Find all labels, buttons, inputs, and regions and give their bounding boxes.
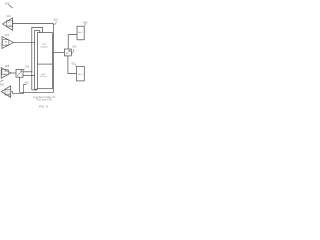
label 912 curl: [75, 65, 76, 67]
svg-text:Ant 1: Ant 1: [78, 31, 84, 34]
wire vertical Vb: [35, 31, 40, 90]
label 900 leader: [9, 5, 13, 9]
switch S1: [64, 49, 71, 56]
svg-text:918: 918: [25, 65, 30, 69]
svg-text:920: 920: [0, 83, 5, 87]
mixer M1: [16, 69, 23, 77]
wire mixer to Va: [23, 71, 32, 73]
wire block to switch: [54, 52, 65, 54]
svg-text:FIG. 9: FIG. 9: [39, 105, 48, 109]
svg-text:Duplexer: Duplexer: [40, 46, 48, 49]
amplifier A3 inner box: [2, 69, 8, 75]
svg-text:922: 922: [25, 81, 30, 85]
label 910 curl: [71, 49, 74, 52]
svg-text:TDD and FDD: TDD and FDD: [36, 98, 53, 102]
label 918 curl: [23, 68, 25, 71]
svg-text:910: 910: [72, 45, 77, 49]
wire mixer bottom vertical: [19, 77, 21, 92]
wire switch up to antenna box: [68, 35, 77, 49]
block divider: [37, 63, 52, 65]
wire Vb to block bottom: [35, 88, 38, 90]
svg-text:904: 904: [5, 33, 10, 37]
amplifier A3: [1, 68, 11, 79]
wire A2 to node: [14, 41, 35, 43]
wire vertical Va: [32, 27, 43, 90]
amplifier A1: [3, 18, 13, 30]
wire right vertical: [53, 24, 55, 93]
svg-text:908: 908: [5, 64, 10, 68]
antenna box B3 bottom right: [77, 67, 85, 81]
label 920 leader: [0, 80, 4, 82]
svg-text:LNA: LNA: [7, 24, 12, 27]
svg-text:914: 914: [6, 14, 11, 18]
wire mixer to Vb: [23, 74, 35, 76]
wire bottom horizontal: [20, 91, 54, 93]
wire A4 loop: [11, 84, 27, 93]
svg-text:900: 900: [5, 2, 10, 6]
junction A2 wire at Vb: [34, 42, 35, 43]
amplifier A4: [1, 86, 10, 98]
label 906 curl: [84, 24, 85, 26]
svg-text:LNA: LNA: [6, 93, 11, 96]
wire A3 to mixer: [11, 72, 16, 74]
svg-text:916: 916: [53, 18, 58, 22]
antenna box B1 top right: [77, 26, 84, 40]
amplifier A4 inner box: [5, 90, 11, 96]
amplifier A2 inner box: [2, 40, 8, 46]
wire Va to block bottom: [32, 89, 38, 91]
svg-text:Ant 2: Ant 2: [78, 73, 84, 76]
label 916 curl: [54, 22, 57, 25]
svg-text:912: 912: [71, 61, 76, 65]
amplifier A2: [2, 37, 14, 49]
svg-text:906: 906: [83, 21, 88, 25]
wire A1 to right: [13, 23, 54, 25]
svg-text:Filters: Filters: [40, 75, 48, 78]
wire switch down to box B3: [68, 56, 77, 74]
block duplexer: [37, 33, 52, 89]
amplifier A1 inner box: [7, 21, 13, 27]
junction mixer wire at Va: [31, 71, 32, 72]
junction mixer wire at Vb: [34, 75, 35, 76]
